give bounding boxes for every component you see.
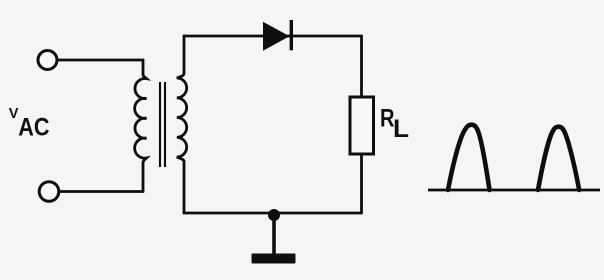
svg-text:L: L — [393, 115, 409, 143]
diode D1 triangle — [263, 22, 290, 51]
transformer primary winding — [135, 60, 147, 192]
waveform pulse 2 — [538, 127, 579, 190]
label R_L — [380, 105, 409, 144]
transformer core — [160, 82, 165, 167]
waveform baseline — [428, 189, 600, 192]
label V_AC — [9, 106, 50, 142]
wire resistor top lead — [360, 36, 363, 97]
wire secondary-top to diode and resistor-top — [184, 35, 362, 38]
junction node dot — [268, 209, 280, 221]
ground stem — [272, 215, 276, 254]
transformer secondary winding — [177, 36, 187, 213]
waveform pulse 1 — [448, 125, 490, 190]
svg-text:V: V — [9, 106, 19, 122]
ground bar — [252, 254, 296, 264]
wire top-input to primary — [58, 59, 144, 62]
terminal bottom input — [39, 182, 59, 202]
diode D1 cathode bar — [290, 20, 293, 50]
wire resistor bottom lead — [360, 154, 363, 213]
terminal top input — [38, 51, 57, 70]
wire bottom-input to primary — [59, 190, 143, 193]
wire bottom return secondary to resistor — [184, 212, 362, 215]
svg-text:AC: AC — [18, 114, 49, 142]
resistor R_L body — [350, 97, 374, 154]
